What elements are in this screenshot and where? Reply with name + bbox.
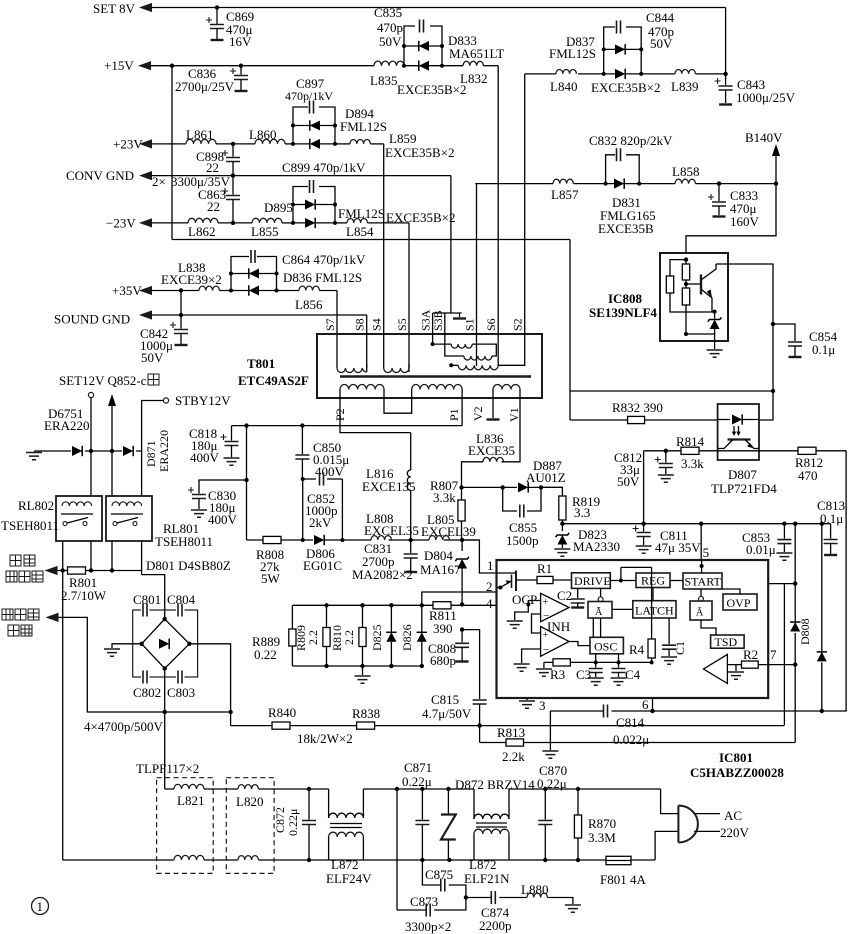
wire S2 from 8V row (524, 74, 526, 366)
inductor L821 (174, 784, 204, 789)
wire vertical x=172 (171, 66, 173, 240)
transistor Q inside IC808 (700, 275, 702, 295)
wire SET12V down (90, 398, 92, 496)
wire aux power row (46, 613, 59, 622)
svg-text:Ā: Ā (595, 607, 603, 618)
wire R808/D806 row y=540 (247, 539, 480, 541)
inductor L854 (347, 219, 367, 223)
svg-text:L835: L835 (370, 73, 397, 88)
svg-text:D804: D804 (424, 548, 453, 563)
svg-text:T801: T801 (247, 356, 275, 371)
svg-text:IC801: IC801 (719, 750, 753, 765)
wire bridge bottom down (164, 669, 166, 713)
svg-text:RL802: RL802 (18, 498, 54, 513)
capacitor C803 (176, 669, 185, 684)
ground INH (522, 649, 541, 663)
svg-text:4×4700p/500V: 4×4700p/500V (84, 719, 163, 734)
svg-text:L872: L872 (331, 857, 358, 872)
wire R840/R838 row y=725.6 (231, 725, 785, 727)
capacitor C853 (782, 522, 786, 526)
svg-text:2kV: 2kV (309, 515, 332, 530)
svg-text:TLP721FD4: TLP721FD4 (711, 481, 777, 496)
inductor L861 (186, 139, 216, 144)
svg-text:4: 4 (486, 596, 493, 611)
svg-text:L862: L862 (188, 224, 215, 239)
svg-text:D872 BRZV14: D872 BRZV14 (455, 777, 535, 792)
wire collector out (716, 264, 773, 391)
svg-text:18k/2W×2: 18k/2W×2 (297, 731, 353, 746)
svg-text:V2: V2 (471, 406, 485, 421)
svg-text:MA2082×2: MA2082×2 (352, 567, 413, 582)
wire pin2 elbow (422, 592, 497, 605)
svg-text:S8: S8 (353, 318, 367, 331)
inductor L857 (553, 179, 573, 183)
svg-text:EXCE135: EXCE135 (362, 479, 415, 494)
inductor L859 (350, 140, 370, 144)
svg-text:FML12S: FML12S (340, 119, 387, 134)
resistor R2 to pin7 (727, 664, 795, 666)
plug AC (655, 789, 678, 860)
svg-text:16V: 16V (229, 34, 252, 49)
resistor R819 (541, 487, 562, 496)
capacitor C898 (232, 144, 234, 157)
block DRIVE (572, 573, 611, 589)
capacitor C870 (544, 789, 546, 820)
wire S5 from -23V (408, 223, 410, 372)
svg-text:L860: L860 (249, 127, 276, 142)
diode D804 zener (461, 540, 463, 551)
svg-text:OCP: OCP (512, 592, 537, 607)
pin 3 ground (526, 698, 528, 700)
wire pin5 (699, 522, 703, 526)
svg-text:ELF21N: ELF21N (464, 871, 510, 886)
winding S4-S5 (384, 364, 409, 368)
wire V2 to chassis bar (492, 398, 494, 418)
svg-text:3: 3 (539, 698, 546, 713)
svg-text:C832 820p/2kV: C832 820p/2kV (589, 133, 673, 148)
svg-text:5: 5 (703, 545, 710, 560)
svg-text:L854: L854 (346, 224, 374, 239)
MOSFET Q inside (497, 572, 517, 574)
capacitor C802 (141, 669, 150, 684)
inductor L855 (252, 218, 282, 223)
svg-text:C1: C1 (673, 641, 687, 655)
svg-text:2200p: 2200p (479, 918, 512, 933)
svg-text:3.3M: 3.3M (588, 830, 616, 845)
svg-text:TSD: TSD (715, 635, 738, 649)
svg-text:AU01Z: AU01Z (526, 470, 566, 485)
junction (179, 288, 183, 292)
capacitor C811 (641, 522, 645, 526)
transformer core (340, 375, 531, 378)
capacitor C4 (617, 660, 621, 664)
CJK glyph ji (148, 374, 159, 385)
capacitor C808 (460, 627, 464, 631)
inductor L860 (255, 139, 285, 144)
wire bridge left to ground (112, 644, 142, 648)
resistor R814 (681, 447, 699, 454)
svg-text:6: 6 (642, 697, 649, 712)
wire R832 row (570, 419, 718, 421)
wire R812 down right edge (845, 451, 847, 711)
wire FF1 to OSC (593, 618, 600, 637)
svg-text:R4: R4 (629, 642, 645, 657)
svg-text:3.3k: 3.3k (433, 490, 456, 505)
svg-text:1: 1 (37, 899, 44, 914)
block TSD (711, 635, 745, 648)
comparator INH (541, 627, 570, 657)
wire +23V rail (139, 139, 152, 148)
svg-text:R832 390: R832 390 (612, 400, 663, 415)
svg-text:OSC: OSC (594, 640, 617, 654)
svg-text:−23V: −23V (106, 216, 136, 231)
resistor R810 (360, 603, 364, 607)
amplifier A1 (704, 654, 728, 683)
svg-text:F801 4A: F801 4A (600, 872, 646, 887)
svg-text:5W: 5W (261, 571, 281, 586)
svg-text:0.022μ: 0.022μ (613, 732, 649, 747)
svg-text:INH: INH (547, 619, 570, 634)
svg-text:L855: L855 (251, 224, 278, 239)
svg-text:+35V: +35V (112, 283, 142, 298)
inductor L805 (429, 536, 449, 540)
svg-text:S6: S6 (484, 318, 498, 331)
resistor R4 (621, 567, 652, 639)
junction C836 (239, 63, 243, 67)
wire x=397 down to C873 (396, 789, 398, 910)
svg-text:7: 7 (770, 647, 777, 662)
relay RL802 (56, 496, 102, 541)
wire row B y=742.5 R813 (480, 742, 796, 744)
svg-text:EXCE35B×2: EXCE35B×2 (591, 80, 660, 95)
capacitor C873 row (397, 898, 466, 911)
page mark 1 (32, 898, 49, 915)
svg-text:+15V: +15V (104, 58, 134, 73)
svg-text:EXCEL39: EXCEL39 (421, 524, 476, 539)
junction row4/D804 (460, 602, 464, 606)
svg-text:1000μ/25V: 1000μ/25V (736, 90, 796, 105)
wire bottom U row y=239.5 (172, 239, 570, 241)
resistor R809 (324, 603, 328, 607)
filter TLPF117 dashed boxes (157, 778, 214, 874)
inductor L840 (556, 70, 576, 74)
winding S7-S8 (337, 364, 367, 368)
svg-text:400V: 400V (208, 512, 238, 527)
zener inside IC808 (714, 312, 716, 319)
svg-text:C899 470p/1kV: C899 470p/1kV (282, 160, 366, 175)
wire D808 branch from row (793, 522, 797, 526)
optocoupler D807 box (718, 404, 759, 460)
svg-text:C804: C804 (167, 592, 196, 607)
inductor L839 (675, 70, 695, 74)
wire INH out to OSC (569, 642, 590, 646)
svg-text:C835: C835 (374, 5, 402, 20)
svg-text:DRIVE: DRIVE (574, 574, 611, 588)
resistor R812 (759, 450, 846, 452)
svg-text:L820: L820 (236, 794, 263, 809)
resistor R838 (357, 722, 375, 729)
svg-text:L880: L880 (521, 882, 548, 897)
svg-text:D808: D808 (798, 618, 812, 645)
svg-text:−: − (543, 644, 549, 656)
phototransistor inside D807 (728, 438, 751, 440)
resistor R811 (433, 602, 451, 609)
wire pin1 elbow (462, 540, 496, 573)
capacitor C830 (199, 480, 247, 494)
resistor ladder inside IC808 (670, 260, 715, 312)
wire C815 branch (462, 630, 480, 699)
winding P1 primary (412, 385, 462, 390)
svg-text:C4: C4 (625, 667, 641, 682)
resistor R1 (516, 579, 572, 581)
svg-text:EXCE35B×2: EXCE35B×2 (385, 145, 454, 160)
wire D887 row y=487.4 (462, 486, 563, 488)
resistor R870 (577, 789, 579, 815)
capacitor C804 (176, 602, 185, 617)
svg-text:L861: L861 (186, 127, 213, 142)
wire R801 row with arrow (45, 566, 58, 575)
capacitor C843 (725, 74, 727, 85)
svg-text:R814: R814 (676, 434, 705, 449)
svg-text:680p: 680p (430, 653, 456, 668)
winding S3B mid (445, 334, 464, 356)
capacitor C815 (473, 700, 487, 704)
svg-text:C5HABZZ00028: C5HABZZ00028 (690, 765, 784, 780)
wire bank bottom rail y=666 (292, 665, 421, 667)
svg-text:FML12S: FML12S (549, 46, 596, 61)
svg-text:C871: C871 (404, 760, 432, 775)
ground IC808 (707, 350, 723, 357)
svg-text:S4: S4 (370, 318, 384, 331)
diode D826 (420, 603, 424, 607)
svg-text:2.2k: 2.2k (502, 749, 525, 764)
inductor L835 (374, 61, 404, 66)
svg-text:0.01μ: 0.01μ (746, 542, 776, 557)
choke L872 ELF21N (474, 789, 509, 860)
svg-text:FML12S: FML12S (338, 206, 385, 221)
svg-text:1500p: 1500p (506, 533, 539, 548)
svg-text:0.1μ: 0.1μ (812, 342, 835, 357)
flipflop FF1 (600, 588, 602, 596)
svg-text:C844: C844 (646, 10, 675, 25)
winding P2 primary (339, 390, 341, 399)
svg-text:EG01C: EG01C (303, 558, 342, 573)
block LATCH (633, 601, 676, 618)
wire link to bridge top (142, 575, 165, 619)
svg-text:R840: R840 (268, 705, 296, 720)
wire B140V to IC808 (774, 181, 778, 185)
junction D804 (460, 538, 464, 542)
ground OCP (515, 605, 529, 621)
svg-text:TSEH8011: TSEH8011 (155, 534, 213, 549)
diode D6751 row with ground (34, 450, 142, 452)
relay RL801 (106, 496, 152, 541)
svg-text:L840: L840 (550, 79, 577, 94)
junction C843 (723, 72, 727, 76)
svg-text:EXCE35B: EXCE35B (598, 221, 654, 236)
capacitor C836 (240, 66, 242, 75)
diode D825 (389, 603, 393, 607)
wire B+ row y=425.6 (232, 425, 463, 427)
diode-pack D895 with C899 (293, 187, 335, 223)
svg-text:MA2330: MA2330 (573, 539, 620, 554)
junction (231, 173, 235, 177)
diode D824 second vertical (820, 522, 824, 526)
svg-text:22: 22 (206, 160, 219, 175)
svg-text:P1: P1 (447, 408, 461, 421)
svg-text:S5: S5 (395, 318, 409, 331)
capacitor C813 (830, 524, 832, 539)
diode-pack D836 with C864 (231, 257, 277, 291)
svg-text:2700μ/25V: 2700μ/25V (175, 79, 235, 94)
diode-pack D833 with C835 (404, 26, 442, 66)
transformer T801 box (317, 334, 542, 398)
svg-text:C873: C873 (410, 894, 438, 909)
wire +35V rail (139, 286, 152, 295)
wire V1 down to L836 row (501, 398, 520, 462)
wire row A y=711 with C814 (550, 710, 846, 712)
svg-text:CONV GND: CONV GND (66, 168, 134, 183)
wire FF1 to LATCH (612, 608, 633, 610)
junction C833 (717, 181, 721, 185)
svg-text:0.22: 0.22 (254, 647, 277, 662)
wire R814 row (644, 450, 718, 452)
svg-text:50V: 50V (617, 474, 640, 489)
capacitor C855 loop (503, 487, 541, 511)
svg-text:SET12V Q852-c: SET12V Q852-c (59, 373, 147, 388)
junction (170, 63, 174, 67)
IC U808 box (660, 253, 728, 341)
resistor R807 vertical (461, 487, 463, 500)
svg-text:D895: D895 (264, 200, 293, 215)
svg-text:R838: R838 (352, 706, 380, 721)
ground amp (735, 665, 737, 671)
wire OCP- to INH+ (532, 614, 541, 633)
svg-text:160V: 160V (730, 214, 760, 229)
svg-text:V1: V1 (507, 407, 521, 422)
resistor R832 (628, 416, 645, 423)
wire S1 to B140V row (476, 184, 478, 366)
svg-text:EXCE35B×2: EXCE35B×2 (397, 82, 466, 97)
capacitor C812 (665, 451, 667, 463)
wire P2 down and right (340, 398, 411, 433)
junction input (684, 257, 688, 261)
svg-text:D807: D807 (728, 467, 757, 482)
resistor R3 row (544, 661, 652, 663)
wire S7 from +35V (336, 291, 338, 365)
svg-text:MA651LT: MA651LT (449, 46, 504, 61)
svg-text:ERA220: ERA220 (157, 430, 171, 472)
wire LED cathode up (759, 391, 773, 420)
svg-text:50V: 50V (141, 350, 164, 365)
svg-text:4.7μ/50V: 4.7μ/50V (422, 706, 472, 721)
wire SOUND GND rail (139, 310, 152, 319)
wire CONV GND rail (139, 171, 152, 180)
diode D823 zener to ground (560, 522, 564, 526)
wire bridge output down to AC filter (164, 712, 166, 789)
capacitor C852 loop (303, 479, 343, 540)
inductor L838 (199, 286, 219, 290)
svg-text:R870: R870 (588, 816, 616, 831)
svg-text:AC: AC (724, 808, 742, 823)
svg-text:TSEH8011: TSEH8011 (1, 518, 59, 533)
resistor R889 (291, 605, 293, 629)
capacitor C3 (594, 660, 598, 664)
svg-text:D825: D825 (370, 624, 384, 651)
wire cross link y=391 (570, 390, 773, 392)
pin 6 stub (652, 698, 654, 711)
ground bank (362, 666, 364, 675)
svg-text:SET 8V: SET 8V (93, 1, 136, 16)
bridge rectifier D801 (133, 610, 198, 677)
svg-text:2.2: 2.2 (342, 630, 356, 645)
inductor L856 (299, 286, 319, 290)
svg-text:R2: R2 (743, 647, 758, 662)
junction C854 (771, 322, 775, 326)
resistor R840 (272, 722, 290, 729)
block START (683, 573, 722, 589)
diode D831 with C832 (606, 155, 640, 184)
block OSC (590, 637, 623, 654)
wire S4 from +23V (383, 144, 385, 364)
svg-text:IC808: IC808 (608, 291, 642, 306)
svg-text:22: 22 (207, 199, 220, 214)
block OVP (723, 594, 757, 610)
svg-text:400V: 400V (190, 450, 220, 465)
svg-text:L872: L872 (469, 857, 496, 872)
svg-text:S1: S1 (463, 318, 477, 331)
junction C869 node (215, 5, 219, 9)
wire S3A from CONV GND (433, 176, 462, 345)
wire from U row down to R832 (569, 240, 571, 421)
svg-text:C864 470p/1kV: C864 470p/1kV (282, 252, 366, 267)
svg-text:3.3: 3.3 (574, 505, 590, 520)
svg-text:2.2: 2.2 (306, 630, 320, 645)
svg-text:390: 390 (433, 621, 453, 636)
svg-text:1: 1 (487, 558, 494, 573)
inductor L836 (483, 457, 503, 461)
svg-text:R3: R3 (550, 667, 565, 682)
svg-text:R1: R1 (537, 561, 552, 576)
svg-text:Ā: Ā (696, 608, 704, 619)
svg-text:2: 2 (486, 579, 493, 594)
svg-text:C802: C802 (133, 685, 161, 700)
svg-text:SE139NLF4: SE139NLF4 (589, 305, 657, 320)
wire +15V rail (138, 61, 151, 70)
wire SET8V down to C843 node (725, 8, 727, 74)
svg-text:R813: R813 (497, 725, 525, 740)
wire x=246 vertical (246, 426, 248, 540)
node aux power label (2, 609, 13, 620)
svg-text:L858: L858 (672, 164, 699, 179)
svg-text:2×: 2× (152, 174, 166, 189)
capacitor C833 (718, 184, 720, 201)
wire B140V row (475, 183, 776, 185)
IC IC801 box (497, 560, 769, 698)
node demagnetize label (10, 555, 21, 566)
capacitor C850 (301, 426, 303, 454)
capacitor C869 (216, 8, 218, 25)
wire P1 down to B+ row (461, 398, 463, 426)
svg-text:S3B: S3B (431, 310, 445, 331)
svg-text:D826: D826 (400, 624, 414, 651)
inductor L808 (371, 536, 391, 540)
svg-text:C815: C815 (431, 692, 459, 707)
winding S3A upper (431, 342, 435, 346)
svg-text:L839: L839 (671, 79, 698, 94)
inductor L820 (238, 785, 258, 789)
resistor R808 (263, 536, 281, 543)
